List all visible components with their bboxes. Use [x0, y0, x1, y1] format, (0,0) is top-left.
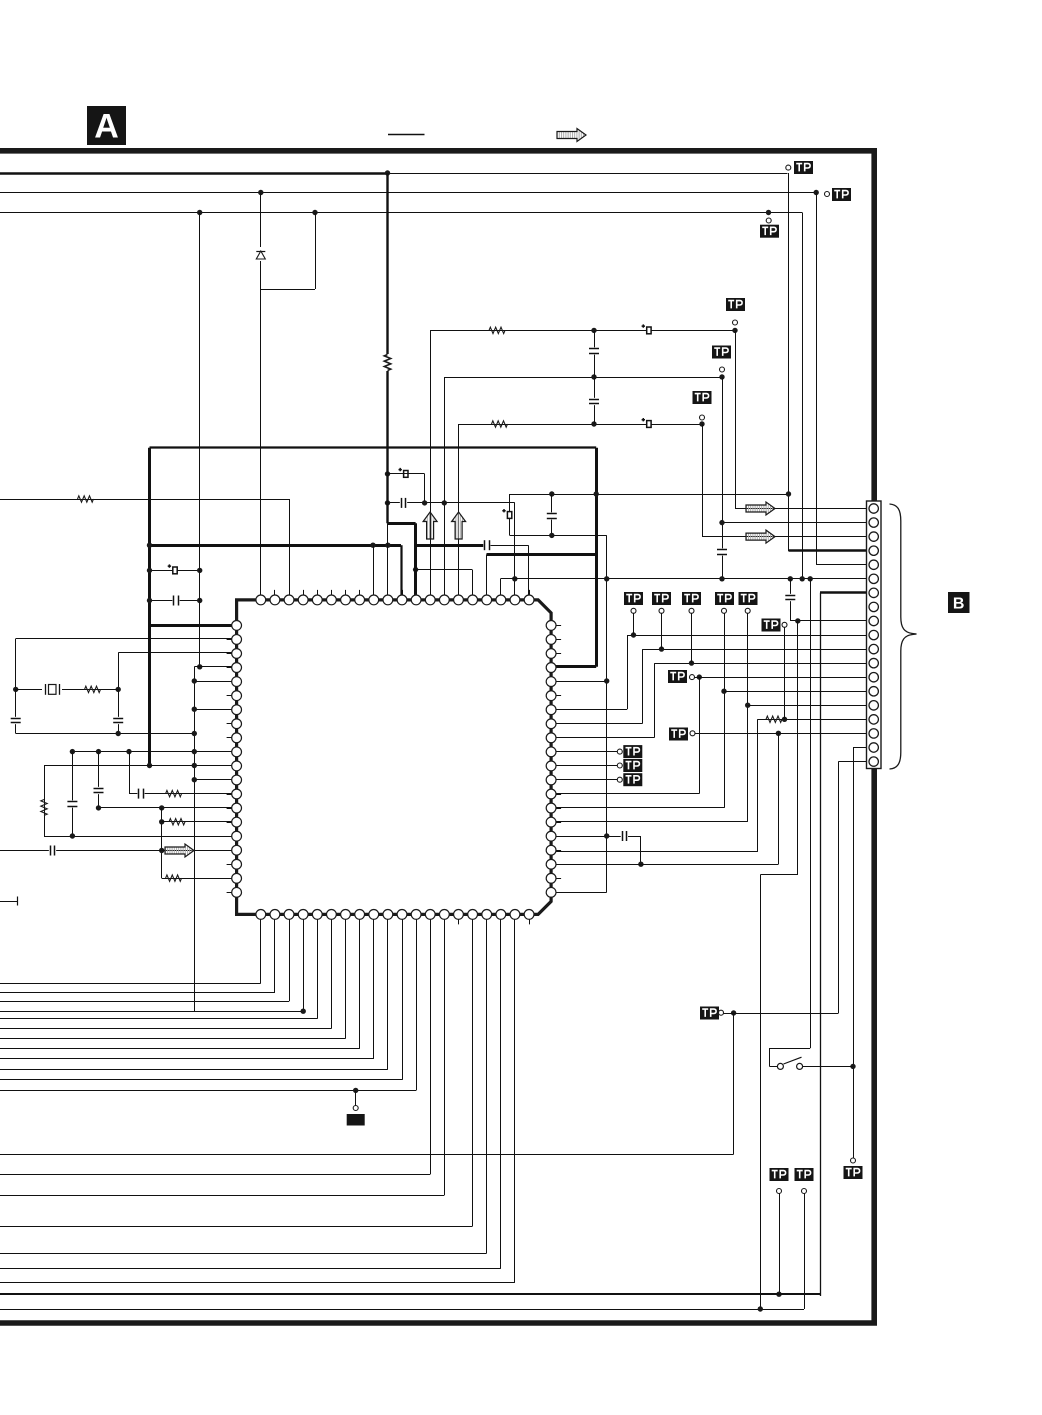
svg-text:A: A	[94, 108, 119, 146]
svg-text:B: B	[953, 596, 965, 613]
